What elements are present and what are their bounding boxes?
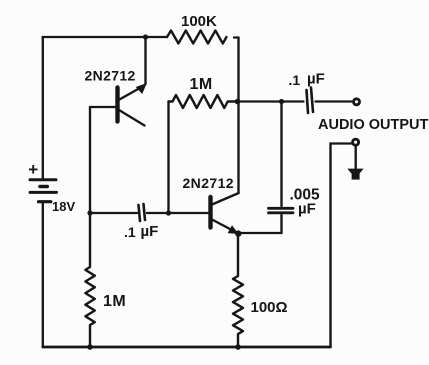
wire mid rail to .1uF cap: [239, 100, 304, 102]
svg-text:100Ω: 100Ω: [251, 299, 288, 316]
resistor R4 100ohm vertical: [233, 233, 243, 347]
ground symbol arrow: [347, 169, 363, 179]
svg-text:+: +: [28, 160, 38, 179]
wire left vertical from top rail to battery: [42, 37, 44, 178]
wire emitter node to .005 cap: [238, 232, 282, 234]
svg-text:µF: µF: [298, 201, 316, 218]
capacitor C1 .1uF plates: [307, 90, 309, 113]
svg-text:µF: µF: [307, 71, 325, 88]
wire mid vertical x=238.5 (100K end to Q2 collector): [237, 38, 239, 193]
Q1 collector arrowhead: [136, 83, 147, 94]
junction mid rail / x=238.5: [235, 99, 241, 105]
Q1 emitter lead: [119, 110, 145, 126]
wire Q1 collector vertical: [144, 37, 146, 84]
junction top rail / Q1 collector: [143, 34, 148, 39]
wire cap to output terminal: [316, 100, 352, 102]
wire Q2 base from cap: [147, 212, 209, 214]
svg-text:.1: .1: [124, 224, 136, 240]
wire return terminal to right vertical: [331, 142, 352, 144]
junction 100ohm bottom rail: [235, 344, 241, 350]
terminal audio output hot: [354, 99, 360, 105]
capacitor C3 .005uF plates: [269, 207, 294, 210]
wire .005 cap top vertical: [280, 102, 282, 207]
resistor R2 1M horizontal: [169, 95, 235, 108]
junction 1M / Q2 base: [166, 210, 171, 215]
capacitor C2 .1uF plates (Q2 base): [139, 205, 141, 221]
Q1 collector lead: [119, 89, 140, 101]
svg-text:2N2712: 2N2712: [183, 175, 234, 191]
svg-text:AUDIO OUTPUT: AUDIO OUTPUT: [318, 117, 429, 133]
battery B1 18V: [30, 180, 57, 202]
wire Q1 base left: [90, 106, 116, 108]
svg-text:.1: .1: [289, 72, 301, 88]
svg-text:1M: 1M: [190, 76, 213, 93]
wire .005 cap bottom vertical: [280, 215, 282, 233]
wire node to C2: [90, 212, 137, 214]
transistor Q2 2N2712 base bar: [208, 197, 212, 228]
svg-text:µF: µF: [141, 223, 159, 240]
Q2 collector lead: [212, 193, 239, 205]
top rail wire: [43, 36, 239, 39]
wire battery negative to bottom rail: [42, 203, 44, 347]
junction Q2 emitter node: [235, 230, 241, 236]
resistor R3 1M vertical: [85, 213, 94, 347]
terminal audio output return: [353, 139, 359, 145]
wire right vertical output return: [329, 144, 331, 348]
Q2 emitter arrowhead: [228, 225, 239, 234]
junction mid rail / .005 cap: [279, 99, 284, 104]
bottom rail wire: [43, 346, 331, 349]
svg-text:1M: 1M: [103, 293, 126, 310]
transistor Q1 2N2712 base bar: [115, 88, 119, 122]
ground stem: [355, 146, 357, 169]
svg-text:18V: 18V: [52, 199, 75, 214]
svg-text:100K: 100K: [181, 13, 217, 30]
wire Q1 base down to node: [89, 107, 91, 213]
junction Q1 base node: [87, 210, 92, 215]
wire 1M left end down to Q2 base node: [167, 102, 169, 214]
Q2 emitter lead: [212, 220, 237, 233]
junction 1M bottom rail: [87, 344, 93, 350]
resistor R1 100K: [167, 31, 226, 44]
svg-text:2N2712: 2N2712: [85, 68, 136, 84]
